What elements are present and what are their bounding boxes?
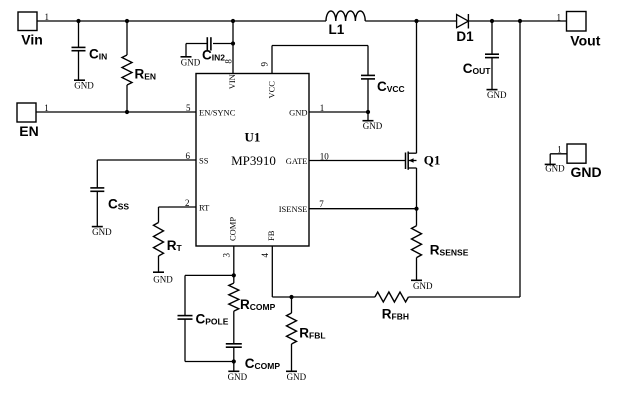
diode D1 xyxy=(456,14,474,44)
svg-text:RCOMP: RCOMP xyxy=(240,297,276,312)
resistor R_COMP xyxy=(229,275,276,343)
node Vin/REN junction xyxy=(125,19,129,23)
terminal EN xyxy=(17,103,49,139)
svg-text:10: 10 xyxy=(320,151,330,161)
svg-text:CIN: CIN xyxy=(89,47,107,62)
svg-text:EN: EN xyxy=(19,123,38,139)
terminal Vin xyxy=(18,12,49,48)
svg-text:COUT: COUT xyxy=(463,61,492,76)
svg-text:L1: L1 xyxy=(329,22,345,37)
pin 6 SS wire xyxy=(97,151,208,188)
pin 1 GND wire xyxy=(289,103,368,118)
svg-text:Q1: Q1 xyxy=(424,153,441,168)
capacitor C_POLE xyxy=(178,275,234,361)
capacitor C_OUT xyxy=(463,21,499,89)
node CIN2 junction xyxy=(231,41,235,45)
svg-text:4: 4 xyxy=(260,253,270,258)
svg-text:Vin: Vin xyxy=(21,32,43,48)
svg-text:GND: GND xyxy=(74,81,94,91)
svg-text:5: 5 xyxy=(186,103,191,113)
ground below C_OUT xyxy=(487,90,507,101)
ground below R_T xyxy=(153,272,173,284)
resistor R_T xyxy=(154,223,183,272)
svg-text:ISENSE: ISENSE xyxy=(279,204,308,214)
node CCOMP/CPOLE junction xyxy=(232,359,236,363)
svg-text:Vout: Vout xyxy=(570,33,600,49)
svg-text:VIN: VIN xyxy=(227,74,237,89)
capacitor C_VCC xyxy=(361,46,405,121)
wire Vout sense vertical xyxy=(519,21,521,297)
svg-text:GND: GND xyxy=(287,372,307,382)
svg-text:GND: GND xyxy=(153,275,173,285)
svg-text:CCOMP: CCOMP xyxy=(245,356,281,371)
svg-text:1: 1 xyxy=(320,103,325,113)
svg-text:REN: REN xyxy=(135,66,157,81)
pin 8 VIN xyxy=(223,44,237,90)
svg-text:1: 1 xyxy=(557,144,562,154)
pin 3 COMP xyxy=(222,217,238,276)
svg-text:6: 6 xyxy=(186,151,191,161)
wire RFBH to Vout sense line xyxy=(408,296,520,298)
capacitor C_SS xyxy=(90,188,129,226)
ground below C_VCC xyxy=(363,121,383,132)
svg-text:SS: SS xyxy=(199,156,209,166)
svg-text:U1: U1 xyxy=(245,130,261,145)
svg-text:D1: D1 xyxy=(456,29,474,44)
resistor R_EN xyxy=(122,21,156,112)
pin 5 EN/SYNC wire xyxy=(36,103,236,118)
terminal GND xyxy=(550,144,601,180)
svg-text:1: 1 xyxy=(557,12,562,22)
ground below C_COMP xyxy=(228,371,248,382)
wire FB node to RFBH xyxy=(272,296,375,298)
svg-text:GND: GND xyxy=(413,281,433,291)
resistor R_FBL xyxy=(287,297,326,371)
svg-text:RT: RT xyxy=(199,203,210,213)
ground below C_SS xyxy=(92,227,112,238)
svg-text:RFBL: RFBL xyxy=(299,326,325,341)
svg-text:8: 8 xyxy=(223,59,233,64)
node ISENSE/Q1-source junction xyxy=(414,207,418,211)
svg-text:9: 9 xyxy=(260,62,270,67)
svg-text:GND: GND xyxy=(181,57,201,67)
svg-text:GATE: GATE xyxy=(286,156,308,166)
pin 9 VCC xyxy=(260,46,369,99)
svg-text:3: 3 xyxy=(222,253,232,258)
pin 4 FB xyxy=(260,230,276,297)
capacitor C_IN2 (horizontal) xyxy=(186,21,233,63)
svg-text:CSS: CSS xyxy=(108,196,129,211)
capacitor C_COMP xyxy=(226,344,281,371)
svg-text:RT: RT xyxy=(167,238,183,253)
svg-text:GND: GND xyxy=(92,227,112,237)
svg-text:GND: GND xyxy=(571,164,602,180)
pin 10 GATE wire xyxy=(286,151,406,166)
svg-text:CPOLE: CPOLE xyxy=(196,311,229,326)
svg-text:GND: GND xyxy=(545,164,565,174)
IC U1 (MP3910 controller) xyxy=(196,74,309,247)
svg-text:COMP: COMP xyxy=(228,217,238,241)
node COUT junction xyxy=(490,19,494,23)
node FB/RFBL junction xyxy=(289,295,293,299)
ground below C_IN2 xyxy=(181,57,201,68)
transistor Q1 (NMOS) xyxy=(406,21,441,209)
resistor R_FBH (horizontal) xyxy=(375,292,409,321)
svg-text:RFBH: RFBH xyxy=(382,306,409,321)
wire top rail Vin to L1 xyxy=(37,20,326,22)
svg-text:GND: GND xyxy=(289,107,307,117)
svg-text:MP3910: MP3910 xyxy=(231,153,276,168)
svg-text:GND: GND xyxy=(363,121,383,131)
svg-text:GND: GND xyxy=(228,372,248,382)
node Vout feedback junction xyxy=(518,19,522,23)
resistor R_SENSE xyxy=(412,209,469,280)
svg-text:2: 2 xyxy=(185,198,190,208)
node CVCC/GND-pin junction xyxy=(366,110,370,114)
svg-text:GND: GND xyxy=(487,90,507,100)
pin 7 ISENSE wire xyxy=(279,199,417,214)
svg-text:VCC: VCC xyxy=(266,81,276,99)
node COMP junction xyxy=(232,273,236,277)
ground below C_IN xyxy=(74,80,94,91)
terminal Vout xyxy=(557,12,601,49)
svg-text:RSENSE: RSENSE xyxy=(430,242,469,257)
node Vin/CIN junction xyxy=(76,19,80,23)
node SW (Q1 drain) junction xyxy=(414,19,418,23)
capacitor C_IN xyxy=(72,21,108,80)
ground below R_FBL xyxy=(286,371,307,382)
ground at GND terminal xyxy=(545,164,565,174)
pin 2 RT wire xyxy=(159,198,211,223)
node Vin/VIN-pin junction xyxy=(231,19,235,23)
svg-text:FB: FB xyxy=(266,230,276,241)
svg-text:EN/SYNC: EN/SYNC xyxy=(199,107,236,117)
inductor L1 xyxy=(326,11,365,37)
node REN/EN junction xyxy=(125,110,129,114)
svg-text:CIN2: CIN2 xyxy=(202,48,225,63)
ground below R_SENSE xyxy=(411,280,433,291)
svg-text:7: 7 xyxy=(319,199,324,209)
wire top rail D1 cathode to Vout xyxy=(468,20,566,22)
svg-text:CVCC: CVCC xyxy=(377,79,405,94)
wire top rail L1 to D1 anode xyxy=(365,20,456,22)
